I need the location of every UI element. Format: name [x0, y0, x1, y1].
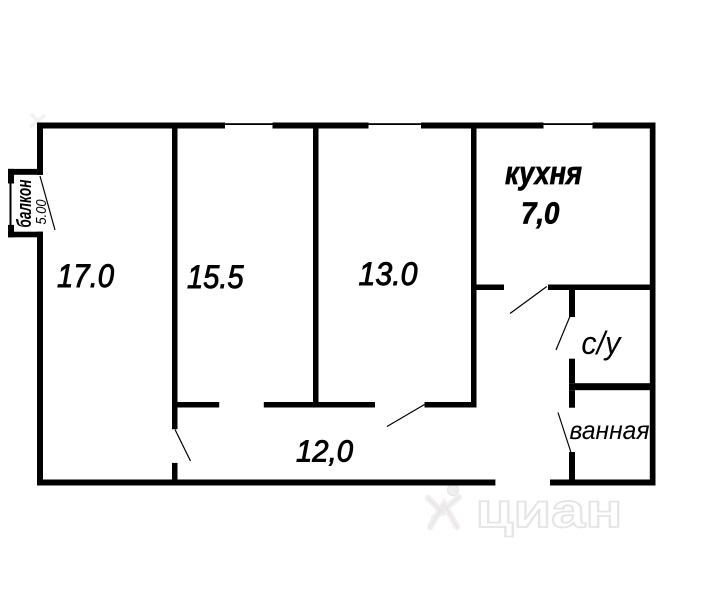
- svg-text:5.00: 5.00: [33, 199, 50, 225]
- svg-text:12,0: 12,0: [296, 434, 353, 469]
- bottom wall left segment: [37, 480, 495, 486]
- door swing room 17: [175, 430, 191, 462]
- svg-text:циан: циан: [476, 485, 623, 538]
- kitchen bottom wall main: [548, 285, 656, 291]
- svg-text:кухня: кухня: [505, 155, 582, 191]
- top wall segment 2: [273, 123, 369, 129]
- kitchen bottom wall stub: [471, 285, 504, 291]
- balcony door swing: [40, 176, 55, 230]
- top wall segment 3: [421, 123, 544, 129]
- door swing room 13: [387, 405, 425, 427]
- balcony left wall bottom stub: [8, 225, 14, 237]
- balcony top wall: [8, 169, 43, 175]
- svg-text:ванная: ванная: [570, 415, 650, 445]
- svg-text:13.0: 13.0: [359, 256, 418, 292]
- window room 13.0: [369, 123, 422, 125]
- watermark person icon top-left: [30, 114, 45, 128]
- balcony left wall top stub: [8, 169, 14, 184]
- corridor wall segment A: [172, 402, 219, 408]
- svg-text:7,0: 7,0: [521, 196, 560, 231]
- left wall upper segment: [37, 123, 43, 175]
- right wall: [650, 123, 656, 486]
- balcony window thin line: [10, 184, 12, 226]
- top wall segment right: [593, 123, 656, 129]
- watermark cian logo bottom-right: [428, 485, 623, 539]
- wc door swing: [556, 315, 571, 350]
- wall 17/corridor stub: [172, 463, 178, 480]
- left wall lower segment: [37, 232, 43, 486]
- balcony bottom wall: [8, 232, 43, 238]
- wall between 17.0 and 15.5: [172, 129, 178, 430]
- bath left wall segment d: [569, 452, 575, 486]
- bath door swing: [558, 413, 571, 453]
- wall between 15.5 and 13.0: [313, 129, 319, 403]
- top wall segment left (room 17/15.5): [37, 123, 225, 129]
- bath left wall segment c: [569, 390, 575, 408]
- svg-text:с/у: с/у: [581, 325, 622, 361]
- window room 15.5: [225, 123, 273, 125]
- corridor wall segment C: [425, 402, 477, 408]
- bottom wall right segment (entrance gap before): [550, 480, 656, 486]
- svg-text:15.5: 15.5: [187, 259, 244, 295]
- wc left wall segment b: [569, 359, 575, 384]
- wc left wall segment a: [569, 290, 575, 317]
- svg-text:17.0: 17.0: [57, 258, 114, 294]
- window kitchen: [544, 123, 593, 125]
- kitchen door swing: [510, 287, 547, 314]
- kitchen left wall: [471, 129, 477, 408]
- wc/bath divider wall: [569, 383, 656, 390]
- corridor wall segment B: [264, 402, 375, 408]
